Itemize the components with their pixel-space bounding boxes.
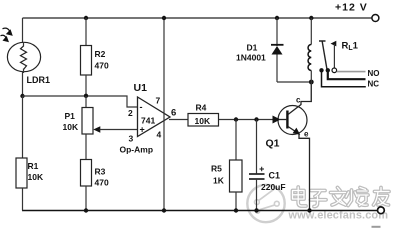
svg-text:C1: C1	[269, 171, 281, 181]
svg-text:R3: R3	[95, 167, 106, 177]
svg-text:10K: 10K	[28, 172, 44, 182]
wire top +12V rail	[23, 17, 372, 19]
node emitter bottom	[307, 208, 311, 212]
svg-text:1N4001: 1N4001	[236, 53, 266, 63]
svg-text:P1: P1	[65, 111, 76, 121]
base bar	[286, 111, 288, 129]
svg-text:NO: NO	[368, 69, 380, 78]
wire LDR bottom to junction	[22, 71, 24, 96]
collector	[288, 82, 311, 115]
svg-text:NC: NC	[368, 80, 380, 89]
transistor Q1	[266, 82, 312, 211]
pivot tick	[319, 40, 326, 42]
svg-text:470: 470	[95, 178, 109, 188]
op-amp U1	[120, 82, 177, 155]
emitter	[288, 127, 310, 211]
svg-text:7: 7	[156, 96, 161, 106]
node C1 bottom	[254, 208, 258, 212]
node R5 bottom	[234, 208, 238, 212]
COM line	[322, 70, 366, 87]
relay RL1 contacts	[319, 41, 380, 89]
svg-text:2: 2	[128, 108, 133, 118]
svg-text:R1: R1	[28, 161, 39, 171]
node D1 top	[275, 16, 279, 20]
svg-text:220uF: 220uF	[261, 182, 286, 192]
contact nodes	[319, 68, 323, 72]
svg-text:c: c	[296, 96, 301, 105]
potentiometer P1	[63, 96, 139, 134]
node LDR/R1/pin2 junction	[20, 94, 24, 98]
svg-text:U1: U1	[134, 82, 148, 94]
svg-text:LDR1: LDR1	[27, 75, 51, 85]
NC line	[328, 70, 366, 79]
node C1 top	[254, 117, 258, 121]
terminal ground	[372, 207, 385, 227]
terminal +12V	[335, 2, 379, 22]
node op-amp V+	[162, 16, 166, 20]
photoresistor LDR1	[7, 42, 50, 85]
svg-text:10K: 10K	[63, 122, 79, 132]
svg-text:3: 3	[129, 134, 134, 144]
capacitor C1	[249, 120, 286, 211]
relay RL1 coil	[308, 18, 311, 102]
resistor R5	[211, 120, 242, 211]
node R5 top	[234, 117, 238, 121]
svg-text:Q1: Q1	[266, 138, 280, 150]
actuator arrow	[331, 41, 337, 47]
svg-text:470: 470	[95, 61, 109, 71]
resistor R4	[188, 103, 219, 127]
svg-text:1K: 1K	[213, 176, 225, 186]
svg-text:4: 4	[157, 130, 162, 140]
wire bottom ground rail	[22, 210, 377, 212]
wire left branch top	[22, 18, 24, 43]
resistor R2	[81, 18, 109, 96]
wire op-amp output	[169, 119, 188, 121]
wire R4 to base	[219, 119, 274, 121]
node coil top	[309, 16, 313, 20]
svg-text:e: e	[304, 130, 309, 139]
resistor R1	[16, 96, 44, 211]
light arrows	[1, 28, 13, 41]
svg-text:www.elecfans.com: www.elecfans.com	[288, 210, 389, 222]
node R3 bottom	[84, 208, 88, 212]
svg-text:Op-Amp: Op-Amp	[120, 145, 154, 155]
svg-text:R5: R5	[211, 164, 222, 174]
node R2 top	[84, 16, 88, 20]
watermark logo circle	[247, 185, 284, 222]
node op-amp V-	[162, 208, 166, 212]
node R2/P1 junction	[84, 94, 88, 98]
diode D1	[236, 18, 311, 82]
node coil/diode junction	[309, 80, 314, 85]
armature	[322, 42, 327, 70]
resistor R3	[81, 134, 109, 211]
svg-text:R2: R2	[95, 49, 106, 59]
svg-text:6: 6	[171, 108, 176, 119]
svg-text:+: +	[140, 125, 145, 135]
svg-text:10K: 10K	[195, 116, 211, 126]
svg-text:+12 V: +12 V	[335, 2, 368, 14]
wire op-amp power rails pins 7/4	[163, 18, 165, 211]
wire inverting input net	[23, 96, 139, 107]
svg-text:-: -	[140, 102, 143, 112]
base arrowhead	[273, 116, 281, 124]
svg-text:R4: R4	[196, 103, 207, 113]
NO line	[337, 71, 366, 73]
svg-text:D1: D1	[247, 43, 258, 53]
